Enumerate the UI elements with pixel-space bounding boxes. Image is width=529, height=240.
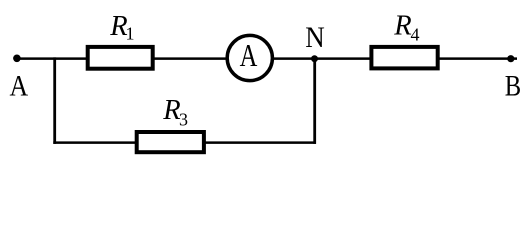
svg-text:R: R — [162, 95, 180, 126]
node A terminal dot — [13, 55, 21, 63]
svg-text:4: 4 — [411, 24, 420, 44]
wire: main horizontal A to B — [17, 57, 517, 60]
svg-text:3: 3 — [179, 109, 188, 129]
node B terminal dot — [507, 55, 514, 62]
resistor R4 — [371, 47, 437, 69]
svg-text:1: 1 — [126, 23, 135, 43]
svg-text:R: R — [393, 11, 411, 42]
svg-text:A: A — [240, 39, 258, 74]
wire: bottom branch horizontal — [53, 141, 316, 144]
wire: right vertical drop from node N — [313, 59, 316, 144]
svg-text:B: B — [505, 69, 521, 102]
svg-text:N: N — [305, 22, 324, 55]
resistor R1 — [88, 47, 153, 69]
node N junction dot — [311, 55, 318, 62]
wire: left vertical drop from node after A — [53, 57, 56, 143]
resistor R3 — [137, 132, 204, 152]
ammeter U1 (circle) — [227, 35, 272, 80]
svg-text:A: A — [9, 70, 28, 103]
